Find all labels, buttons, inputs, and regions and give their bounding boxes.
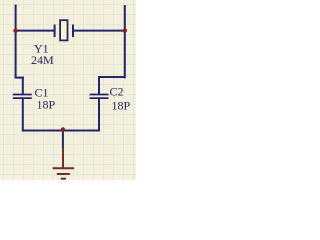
svg-text:18P: 18P xyxy=(112,99,131,113)
svg-text:24M: 24M xyxy=(31,53,54,67)
svg-text:18P: 18P xyxy=(37,98,56,112)
svg-text:C2: C2 xyxy=(110,84,124,98)
